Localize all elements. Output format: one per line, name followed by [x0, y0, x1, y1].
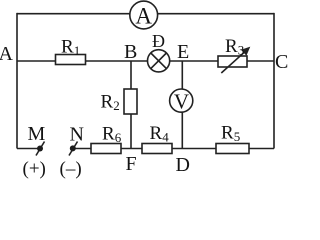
svg-text:Đ: Đ [152, 31, 165, 51]
svg-text:B: B [124, 41, 137, 63]
resistor R6 box [91, 144, 121, 154]
wire R4 to R5 through node D [172, 148, 216, 150]
wire left vertical [16, 13, 18, 149]
wire right vertical [273, 13, 275, 149]
svg-text:A: A [0, 43, 14, 65]
svg-text:R2: R2 [101, 92, 120, 114]
terminal N dot [70, 145, 76, 151]
terminal N blade [69, 142, 78, 156]
wire lamp to node E to R3 [170, 60, 218, 62]
wire terminal N to R6 [73, 148, 91, 150]
resistor R5 box [216, 144, 249, 154]
wire R5 to bottom right corner [249, 148, 274, 150]
svg-text:V: V [174, 90, 189, 114]
terminal M blade [36, 142, 45, 156]
svg-text:R5: R5 [221, 123, 240, 145]
wire bottom left corner to terminal M [17, 148, 40, 150]
resistor R4 box [142, 144, 172, 154]
lamp Đ circle [148, 50, 170, 72]
svg-text:A: A [135, 4, 152, 29]
wire R6 to R4 through node F [121, 148, 142, 150]
rheostat R3 box [218, 56, 247, 67]
wire R2 down to node F [130, 114, 132, 149]
wire node E down to voltmeter [181, 61, 183, 89]
wire top right horizontal [157, 13, 274, 15]
wire voltmeter down to node D [181, 112, 183, 148]
svg-text:R4: R4 [150, 123, 170, 145]
wire node B down to R2 [130, 61, 132, 89]
svg-text:F: F [126, 153, 137, 175]
lamp Đ cross stroke 2 [151, 53, 167, 69]
svg-text:(+): (+) [23, 159, 46, 180]
lamp Đ cross stroke 1 [151, 53, 167, 69]
svg-text:C: C [275, 51, 288, 73]
resistor R1 box [56, 55, 86, 65]
svg-text:R1: R1 [61, 37, 80, 59]
rheostat R3 arrowhead [241, 47, 250, 56]
rheostat R3 arrow shaft [221, 51, 245, 73]
voltmeter V circle [170, 89, 193, 112]
terminal M dot [37, 146, 43, 152]
svg-text:M: M [28, 123, 46, 145]
svg-text:(–): (–) [60, 159, 82, 180]
svg-text:D: D [176, 154, 190, 176]
wire top left horizontal [17, 13, 130, 15]
svg-text:N: N [70, 124, 84, 146]
wire node A to R1 [17, 60, 56, 62]
svg-text:E: E [177, 41, 189, 63]
wire R1 to node B to lamp [86, 60, 148, 62]
resistor R2 box [124, 89, 137, 114]
svg-text:R6: R6 [102, 124, 122, 146]
svg-text:R3: R3 [225, 36, 244, 58]
wire R3 to node C [247, 60, 274, 62]
ammeter A circle [130, 1, 158, 29]
